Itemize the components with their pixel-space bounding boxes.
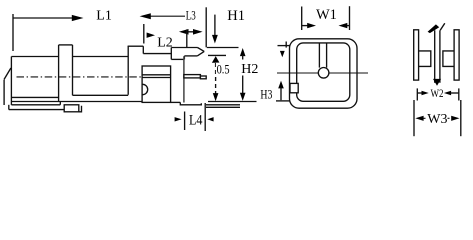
- svg-text:L1: L1: [96, 8, 112, 23]
- dimension W3 left extension line: [413, 100, 415, 136]
- dimension 0.5 dashed line: [215, 63, 217, 97]
- side view bottom axis arrow: [433, 79, 441, 86]
- tall tab top: [128, 45, 144, 47]
- side view hub left line: [434, 30, 436, 83]
- svg-text:W3: W3: [427, 112, 447, 127]
- slider tab T1 left edge: [58, 45, 60, 102]
- dimension W3 left arrow: [415, 116, 423, 121]
- side view hub right line: [439, 30, 441, 83]
- step down to base: [180, 102, 201, 104]
- front view inner body: [297, 43, 350, 101]
- front view left tab square: [290, 83, 298, 92]
- dimension 0.5 up arrow: [212, 56, 220, 63]
- svg-text:L4: L4: [189, 113, 203, 129]
- bottom outer line: [9, 109, 64, 111]
- centerline left view: [17, 76, 143, 78]
- ledge between tab and blade: [143, 53, 171, 55]
- front view centerline: [277, 72, 368, 74]
- box B inner line upper: [142, 74, 171, 76]
- dimension W1 left extension line: [301, 7, 303, 31]
- dimension L4 left arrow: [175, 117, 182, 121]
- blade tip chamfer top: [198, 48, 205, 52]
- blade tip extension line: [205, 7, 207, 47]
- svg-text:L2: L2: [157, 36, 173, 51]
- mounting foot: [64, 105, 79, 112]
- dimension 0.5 label: [216, 63, 232, 74]
- dimension H2 up arrow: [240, 48, 246, 56]
- prong bar: [184, 75, 201, 78]
- svg-text:H3: H3: [260, 87, 272, 102]
- front view small down arrow: [280, 51, 285, 57]
- front view top-left reference line: [278, 45, 290, 47]
- dimension W2 right extension line: [458, 88, 460, 100]
- dimension W2 left arrow: [417, 92, 422, 94]
- dimension L4 left extension line: [184, 112, 186, 131]
- dimension W2 left extension line: [416, 88, 418, 100]
- dimension W1 left arrow: [302, 25, 308, 27]
- body left edge: [10, 57, 12, 105]
- dimension 0.5 down arrow: [213, 93, 219, 101]
- left flap outer vertical: [3, 80, 5, 105]
- side view top mark: [428, 24, 440, 33]
- dimension W1 right arrow: [343, 25, 350, 27]
- dimension H3 arrow: [278, 81, 284, 89]
- bottom strip line: [11, 104, 60, 106]
- svg-text:L3: L3: [186, 8, 196, 22]
- front view outer body: [290, 39, 358, 108]
- dimension L1 extension line: [12, 14, 14, 51]
- blade tip chamfer bottom: [197, 51, 204, 56]
- dimension H2 lower line and arrow: [242, 76, 244, 95]
- inner cavity right edge and tall tab left edge: [127, 46, 129, 95]
- body bottom extension line: [208, 101, 257, 103]
- svg-text:W1: W1: [316, 7, 337, 23]
- svg-text:W2: W2: [431, 86, 444, 100]
- left flap slant: [4, 68, 11, 79]
- front view center circle: [318, 68, 329, 79]
- blade top edge: [171, 47, 197, 49]
- dimension L2 arrow: [147, 33, 155, 38]
- dimension L3 line: [150, 15, 185, 17]
- dimension W3 right extension line: [460, 100, 462, 136]
- prong tip block: [200, 76, 206, 79]
- dimension L4 right extension line: [204, 103, 206, 131]
- small dimension tick line: [186, 29, 188, 47]
- blade bottom edge: [184, 55, 197, 57]
- base line lower: [206, 106, 240, 108]
- blade bottom extension line: [208, 54, 226, 56]
- inner cavity bottom edge: [73, 94, 129, 96]
- dimension L3 arrow: [140, 13, 151, 19]
- box B inner line lower: [142, 77, 171, 79]
- small double arrow dimension: [181, 31, 201, 33]
- tall tab right edge: [142, 46, 144, 53]
- slider tab T1 top cap: [59, 44, 73, 46]
- svg-text:0.5: 0.5: [217, 61, 230, 76]
- dimension W3 dotted line: [424, 117, 452, 119]
- left compartment floor: [11, 96, 58, 98]
- svg-text:H1: H1: [227, 8, 245, 24]
- body bottom edge: [11, 101, 142, 103]
- box B side bump: [143, 84, 148, 94]
- dimension L4 right arrow: [207, 117, 213, 121]
- inner bottom extension under H3: [276, 100, 290, 102]
- terminal pin: [183, 56, 185, 102]
- base line upper: [206, 104, 240, 106]
- slider tab T1 right edge: [72, 45, 74, 95]
- dimension W3 right arrow: [451, 116, 459, 121]
- side view right groove bracket: [443, 51, 454, 67]
- body top edge right segment: [73, 56, 129, 58]
- dimension W3 label: [427, 111, 447, 123]
- svg-text:H2: H2: [241, 62, 258, 77]
- side view left flange: [414, 30, 419, 80]
- blade bottom step: [183, 56, 185, 60]
- lower ledge: [171, 58, 184, 60]
- side view left groove bracket: [419, 51, 431, 67]
- dimension L1 arrow line: [13, 17, 74, 19]
- bottom edge right of box B: [171, 101, 181, 103]
- blade left edge: [170, 48, 172, 60]
- body top edge left segment: [11, 56, 58, 58]
- front view top-left tick: [285, 42, 287, 48]
- strip right seam: [59, 102, 61, 105]
- dimension H1 arrow line: [214, 15, 216, 36]
- front view slot right line: [326, 43, 328, 67]
- side view right flange: [454, 30, 459, 80]
- left flap bottom step: [8, 105, 10, 110]
- blade top extension line: [207, 47, 239, 49]
- foot hook: [79, 106, 82, 112]
- element box B: [142, 66, 171, 102]
- dimension W1 right extension line: [349, 6, 351, 30]
- dimension W2 right arrow: [451, 92, 459, 94]
- front view slot left line: [318, 43, 320, 67]
- dimension L2 extension line: [143, 24, 145, 44]
